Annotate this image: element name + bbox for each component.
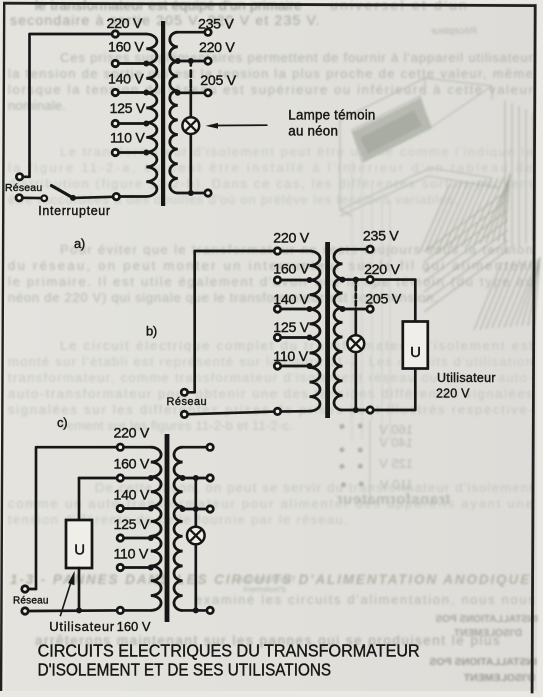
junction lamp line / bottom (b) xyxy=(353,407,359,413)
svg-text:INSTALLATIONS POS: INSTALLATIONS POS xyxy=(429,656,537,668)
wire: lamp line mid (b) xyxy=(354,309,357,336)
wire: 140V tap (c) xyxy=(120,507,151,510)
svg-text:160 V: 160 V xyxy=(117,619,151,634)
wire: lamp line upper (b) xyxy=(354,280,357,284)
svg-text:U: U xyxy=(74,542,85,559)
junction lamp line / bottom (a) xyxy=(188,190,194,196)
junction 110V tap on primary winding (c) xyxy=(148,565,154,571)
junction 140V tap on primary winding (b) xyxy=(307,306,313,312)
svg-text:signalées sur les différent: signalées sur les différentes prises de … xyxy=(8,402,533,417)
terminal 160 V primary (c) xyxy=(117,475,123,481)
wire: lamp line dash 2 (a) xyxy=(189,80,192,87)
svg-text:160 V: 160 V xyxy=(114,456,150,472)
junction 140V tap on primary winding (c) xyxy=(148,506,154,512)
switch pivot (a) xyxy=(70,195,76,201)
terminal 110 V primary (b) xyxy=(274,363,280,369)
wire: réseau to switch contact (a) xyxy=(23,196,41,199)
terminal primary bottom (b) xyxy=(274,408,280,414)
svg-text:au néon: au néon xyxy=(288,124,338,139)
wire: secondary bottom (a) xyxy=(178,192,205,195)
ghost screen patch xyxy=(352,98,432,162)
terminal 220 V primary (b) xyxy=(274,248,280,254)
svg-text:205 V: 205 V xyxy=(200,73,236,89)
wire: réseau bottom (c) xyxy=(29,609,117,612)
svg-text:d'isolement: d'isolement xyxy=(243,584,286,594)
neon lamp (c) xyxy=(187,527,205,545)
svg-text:Utilisateur: Utilisateur xyxy=(49,619,115,634)
svg-text:140 V: 140 V xyxy=(379,435,413,450)
primary winding (a) xyxy=(146,34,157,196)
utilisateur box U (b) xyxy=(403,322,428,369)
junction 125V tap on primary winding (a) xyxy=(143,121,149,127)
svg-text:Réseau: Réseau xyxy=(13,596,49,607)
svg-text:Réseau: Réseau xyxy=(167,396,208,408)
wire: réseau riser to 220V top (c) xyxy=(36,447,151,589)
svg-text:D'ISOLEMENT: D'ISOLEMENT xyxy=(454,628,522,639)
svg-text:125 V: 125 V xyxy=(379,456,413,471)
svg-text:220 V: 220 V xyxy=(436,387,470,401)
svg-text:110 V: 110 V xyxy=(110,130,145,146)
svg-text:140 V: 140 V xyxy=(114,487,150,503)
terminal 220 V secondary (b) xyxy=(367,276,373,282)
terminal 110 V primary (c) xyxy=(117,564,123,570)
wire: utilisateur bottom lead (c) xyxy=(78,568,81,610)
svg-text:220 V: 220 V xyxy=(273,230,309,246)
terminal 160 V primary (b) xyxy=(274,277,280,283)
wire: 125V tap (b) xyxy=(278,336,310,339)
junction 125V tap on primary winding (b) xyxy=(307,335,313,341)
svg-text:CIRCUITS ELECTRIQUES DU TRANSF: CIRCUITS ELECTRIQUES DU TRANSFORMATEUR xyxy=(38,641,420,661)
svg-text:235 V: 235 V xyxy=(198,17,234,33)
svg-text:D'ISOLEMENT ET DE SES UTILISAT: D'ISOLEMENT ET DE SES UTILISATIONS xyxy=(38,661,332,680)
svg-text:b): b) xyxy=(146,324,157,339)
svg-text:comme un auto-transformateur: comme un auto-transformateur pour alimen… xyxy=(8,496,533,511)
réseau terminal lower (b) xyxy=(181,411,187,417)
wire: 235V tap (b) xyxy=(343,248,368,251)
terminal primary bottom (a) xyxy=(113,193,119,199)
wire: lamp line lower (b) xyxy=(354,352,357,410)
svg-text:220 V: 220 V xyxy=(364,262,400,278)
wire: 220V tap to utilisateur (b) xyxy=(343,280,416,322)
caption line 1 xyxy=(38,641,420,661)
svg-text:160 V: 160 V xyxy=(108,39,144,55)
junction 160V tap on primary winding (b) xyxy=(307,277,313,283)
wire: lamp line dash 2 (b) xyxy=(354,294,357,299)
junction 220V tap on secondary winding (b) xyxy=(340,277,346,283)
svg-text:110 V: 110 V xyxy=(114,546,149,562)
svg-text:Transformateur: Transformateur xyxy=(238,574,296,584)
junction 110V tap on primary winding (a) xyxy=(143,150,149,156)
wire: utilisateur top lead (c) xyxy=(78,478,81,520)
terminal 125 V primary (c) xyxy=(117,535,123,541)
svg-text:vement sur les figures 11-2-b: vement sur les figures 11-2-b et 11-2-c. xyxy=(60,418,293,433)
terminal secondary tap 2 (c) xyxy=(207,475,213,481)
core (b) xyxy=(325,242,330,418)
wire: secondary bottom to utilisateur (b) xyxy=(343,369,416,411)
junction 205V tap on secondary winding (a) xyxy=(175,90,181,96)
wire: 110V tap (a) xyxy=(115,151,146,154)
wire: 205V tap (b) xyxy=(343,308,368,311)
secondary winding (b) xyxy=(334,249,343,410)
svg-text:220 V: 220 V xyxy=(107,16,143,32)
junction 220V tap on secondary winding (a) xyxy=(175,58,181,64)
svg-text:140 V: 140 V xyxy=(108,72,144,88)
secondary winding (a) xyxy=(170,32,178,193)
junction 110V tap on primary winding (b) xyxy=(307,363,313,369)
terminal secondary bottom (a) xyxy=(205,190,211,196)
wire: lamp line upper (a) xyxy=(189,61,192,66)
wire: switch to bottom terminal (a) xyxy=(73,197,113,198)
switch lever interrupteur (a) xyxy=(52,186,74,198)
wire: lamp line upper (c) xyxy=(194,478,197,527)
junction tap 3 / lamp line (c) xyxy=(193,506,199,512)
wire: lamp line dash 3 (b) xyxy=(354,301,357,306)
wire: secondary top tap (c) xyxy=(183,446,208,449)
secondary winding (c) xyxy=(174,447,183,610)
svg-text:la figure 11-2-a, ou peut être: la figure 11-2-a, ou peut être installé … xyxy=(8,160,533,175)
wire: 160V tap (b) xyxy=(278,279,310,282)
junction utilisateur / bottom wire (c) xyxy=(76,607,82,613)
terminal 125 V primary (a) xyxy=(112,120,118,126)
wire: secondary bottom (c) xyxy=(183,609,208,612)
svg-text:transformateur: transformateur xyxy=(336,491,450,508)
svg-text:Utilisateur: Utilisateur xyxy=(437,371,496,385)
neon lamp (a) xyxy=(182,117,199,134)
caption line 2 xyxy=(38,661,332,680)
wire: réseau top stub (c) xyxy=(29,588,36,591)
terminal 140 V primary (a) xyxy=(112,89,118,95)
terminal secondary top (c) xyxy=(207,444,213,450)
réseau terminal upper (b) xyxy=(181,389,187,395)
junction 160V tap on primary winding (a) xyxy=(143,61,149,67)
wire: 160V tap (a) xyxy=(115,62,146,65)
svg-text:nominale.: nominale. xyxy=(8,98,66,113)
wire: lamp line mid (a) xyxy=(189,90,192,118)
svg-text:INSTALLATIONS POS: INSTALLATIONS POS xyxy=(435,614,538,625)
junction 220V tap / lamp line (a) xyxy=(188,58,194,64)
wire: 140V tap (b) xyxy=(278,308,310,311)
wire: 160V tap (c) xyxy=(120,477,151,480)
svg-text:220 V: 220 V xyxy=(114,425,150,441)
terminal primary bottom (c) xyxy=(117,607,123,613)
svg-text:125 V: 125 V xyxy=(114,517,150,533)
wire: 205V secondary tap (a) xyxy=(178,91,205,94)
wire: réseau top terminal stub (a) xyxy=(24,175,30,178)
ghost cabinet side verticals xyxy=(505,100,533,253)
terminal 140 V primary (c) xyxy=(117,505,123,511)
wire: 160V tap extension to utilisateur (c) xyxy=(79,477,117,480)
ghost terminal dots xyxy=(340,424,364,488)
terminal secondary bottom (c) xyxy=(207,607,213,613)
primary winding (c) xyxy=(151,447,161,610)
junction 160V tap on primary winding (c) xyxy=(148,475,154,481)
réseau terminal lower (a) xyxy=(16,195,22,201)
junction tap 2 / lamp line (c) xyxy=(193,475,199,481)
wire: réseau bottom to winding (b) xyxy=(189,411,310,414)
neon lamp (b) xyxy=(347,335,364,352)
terminal 235 V secondary (b) xyxy=(367,246,373,252)
wire: bottom terminal to winding (c) xyxy=(125,609,151,612)
junction 220V tap / lamp line (b) xyxy=(353,277,359,283)
réseau terminal upper (c) xyxy=(22,586,28,592)
svg-text:D'ISOLEMENT: D'ISOLEMENT xyxy=(463,672,535,684)
wire: 110V tap (c) xyxy=(120,566,151,569)
svg-text:205 V: 205 V xyxy=(365,291,401,307)
svg-text:110 V: 110 V xyxy=(273,349,308,365)
svg-text:secondaire à sortie 205 V, 220: secondaire à sortie 205 V, 220 V et 235 … xyxy=(10,12,321,28)
réseau terminal upper (a) xyxy=(16,174,22,180)
primary winding (b) xyxy=(310,251,321,411)
wire: 125V tap (a) xyxy=(115,122,146,125)
svg-text:235 V: 235 V xyxy=(363,229,399,245)
réseau terminal lower (c) xyxy=(22,608,28,614)
svg-text:140 V: 140 V xyxy=(273,292,309,308)
core (c) xyxy=(165,434,170,622)
ghost wires xyxy=(352,160,390,440)
wire: lamp line lower (c) xyxy=(194,544,197,611)
svg-text:du réseau, on peut monter un i: du réseau, on peut monter un interrupteu… xyxy=(8,258,533,273)
wire: lamp line lower (a) xyxy=(189,134,192,193)
terminal 205 V secondary (a) xyxy=(205,90,211,96)
wire: lamp line dash 1 (b) xyxy=(354,286,357,291)
ghost hatched panel upper xyxy=(420,173,510,312)
junction tap 2 on secondary winding (c) xyxy=(180,475,186,481)
svg-text:c): c) xyxy=(57,415,67,430)
terminal 160 V primary (a) xyxy=(112,60,118,66)
wire: réseau riser to 220V top (a) xyxy=(30,34,147,177)
terminal 125 V primary (b) xyxy=(274,334,280,340)
svg-text:monté sur l'établi est représe: monté sur l'établi est représenté sur la… xyxy=(8,354,533,369)
terminal secondary tap 3 (c) xyxy=(207,506,213,512)
terminal secondary bottom (b) xyxy=(367,407,373,413)
wire: 125V tap (c) xyxy=(120,537,151,540)
wire: secondary tap 3 (c) xyxy=(183,508,208,511)
terminal 220 V primary (a) xyxy=(112,31,118,37)
wire: 140V tap (a) xyxy=(115,91,146,94)
junction tap 3 on secondary winding (c) xyxy=(180,506,186,512)
svg-text:examiné les circuits d'alim: examiné les circuits d'alimentation, nou… xyxy=(195,592,535,607)
ghost hatched panel lower xyxy=(474,257,540,330)
svg-text:Lampe témoin: Lampe témoin xyxy=(288,108,375,123)
core (a) xyxy=(161,21,165,206)
wire: 220V secondary tap (a) xyxy=(178,60,205,63)
wire: 110V tap (b) xyxy=(278,365,310,368)
switch contact circle (a) xyxy=(41,196,47,202)
arrow utilisateur (c) xyxy=(60,571,74,617)
wire: lamp line dash 1 (a) xyxy=(189,70,192,76)
wire: réseau to 220V top (b) xyxy=(189,251,310,392)
junction lamp line / bottom (c) xyxy=(193,607,199,613)
svg-text:220 V: 220 V xyxy=(199,40,235,56)
utilisateur box U (c) xyxy=(66,520,92,568)
ghost receiver sketch xyxy=(340,78,500,216)
svg-text:Interrupteur: Interrupteur xyxy=(38,204,110,218)
svg-text:a): a) xyxy=(74,236,85,251)
arrow to lamp (a) xyxy=(206,123,268,129)
terminal 235 V secondary (a) xyxy=(205,29,211,35)
svg-text:160 V: 160 V xyxy=(273,261,309,277)
svg-text:U: U xyxy=(410,344,421,361)
wire: 235V tap (a) xyxy=(178,31,205,34)
svg-text:125 V: 125 V xyxy=(110,101,146,117)
terminal 110 V primary (a) xyxy=(112,149,118,155)
svg-text:la tension de sortie qui est l: la tension de sortie qui est la tension … xyxy=(8,66,533,81)
junction 205V tap on secondary winding (b) xyxy=(340,306,346,312)
terminal 205 V secondary (b) xyxy=(367,306,373,312)
terminal 220 V primary (c) xyxy=(117,444,123,450)
svg-text:lorsque la tension du réseau e: lorsque la tension du réseau est supérie… xyxy=(8,82,533,97)
wire: secondary tap 2 (c) xyxy=(183,477,208,480)
wire: bottom terminal to winding (a) xyxy=(118,195,146,198)
terminal 140 V primary (b) xyxy=(274,306,280,312)
svg-text:distribution (figure 11-2-b).: distribution (figure 11-2-b). Dans ce ca… xyxy=(8,176,533,191)
junction 125V tap on primary winding (c) xyxy=(148,535,154,541)
svg-text:125 V: 125 V xyxy=(273,320,309,336)
terminal 220 V secondary (a) xyxy=(205,58,211,64)
svg-text:le primaire. Il est utile égal: le primaire. Il est utile également d'av… xyxy=(8,274,533,289)
svg-text:Réseau: Réseau xyxy=(5,182,42,194)
svg-text:Récepteur: Récepteur xyxy=(430,26,477,37)
junction 140V tap on primary winding (a) xyxy=(143,90,149,96)
svg-text:110 V: 110 V xyxy=(380,477,413,492)
